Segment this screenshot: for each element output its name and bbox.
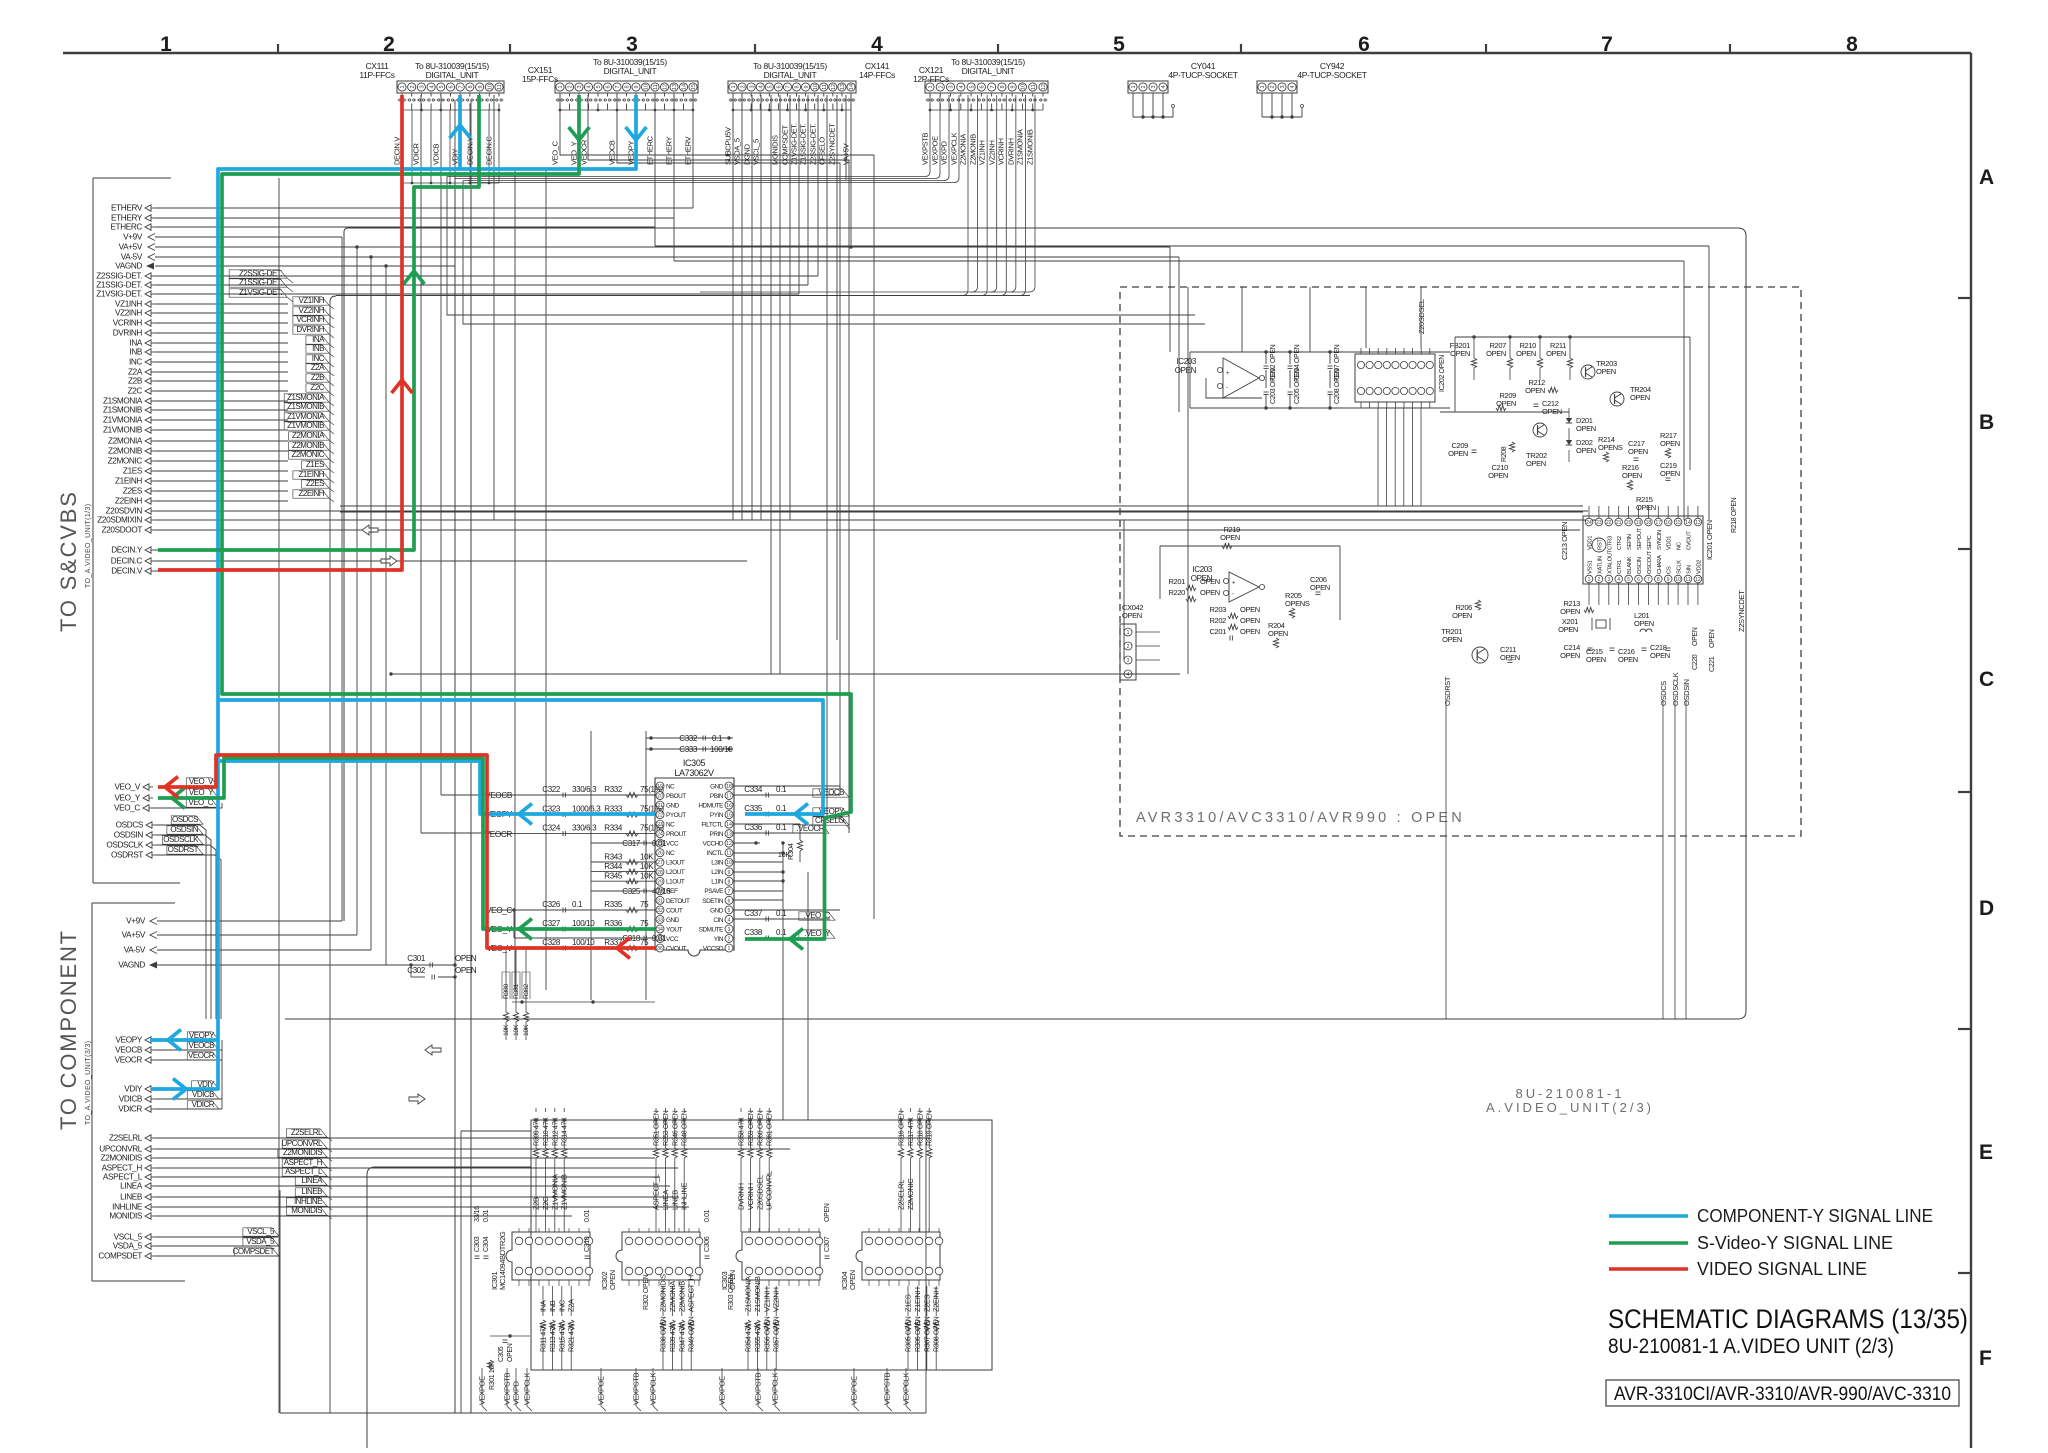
svg-text:VZ1INH: VZ1INH <box>762 1287 771 1312</box>
svg-text:4: 4 <box>959 85 965 88</box>
svg-text:Z2MONIB: Z2MONIB <box>677 1281 686 1312</box>
svg-text:R338 OPEN: R338 OPEN <box>661 1316 668 1352</box>
svg-text:3: 3 <box>420 85 426 88</box>
svg-text:C307: C307 <box>824 1236 831 1252</box>
svg-text:Z2ES: Z2ES <box>123 487 143 496</box>
svg-text:ETHERV: ETHERV <box>111 204 143 213</box>
svg-text:C208 OPEN: C208 OPEN <box>1334 368 1341 404</box>
svg-text:R347 47K: R347 47K <box>679 1323 686 1352</box>
svg-text:R355 47K: R355 47K <box>755 1323 762 1352</box>
svg-text:C303: C303 <box>474 1236 481 1252</box>
svg-text:VCC: VCC <box>666 936 679 943</box>
svg-text:2: 2 <box>1141 85 1147 88</box>
svg-text:VEO_C: VEO_C <box>551 140 560 165</box>
svg-text:OSDCS: OSDCS <box>1659 681 1668 706</box>
svg-text:Z1SMONIA: Z1SMONIA <box>287 393 325 402</box>
svg-text:10K: 10K <box>640 872 654 881</box>
svg-text:0.1: 0.1 <box>776 804 787 813</box>
svg-text:LINEB: LINEB <box>670 1190 679 1210</box>
svg-text:R381: R381 <box>513 984 520 999</box>
svg-text:OSDCS: OSDCS <box>172 815 198 824</box>
svg-text:D: D <box>1979 897 1994 920</box>
svg-text:OPEN: OPEN <box>1542 407 1562 416</box>
svg-text:OPEN: OPEN <box>1576 446 1596 455</box>
svg-text:330/6.3: 330/6.3 <box>572 785 597 794</box>
svg-text:2: 2 <box>1127 644 1130 650</box>
svg-text:INA: INA <box>312 335 325 344</box>
svg-text:6: 6 <box>980 85 986 88</box>
svg-text:C333: C333 <box>679 745 698 754</box>
svg-text:14P-FFCs: 14P-FFCs <box>859 70 895 80</box>
svg-text:1: 1 <box>1260 85 1266 88</box>
svg-text:C201: C201 <box>1209 627 1226 636</box>
svg-text:VSDA_5: VSDA_5 <box>113 1242 143 1251</box>
svg-text:11: 11 <box>653 84 659 90</box>
svg-text:15: 15 <box>726 813 732 819</box>
svg-text:Z1ES: Z1ES <box>306 460 324 469</box>
svg-text:2: 2 <box>1270 85 1276 88</box>
svg-text:C332: C332 <box>679 734 698 743</box>
svg-text:Z1SMONIB: Z1SMONIB <box>103 406 143 415</box>
svg-text:C325: C325 <box>622 887 641 896</box>
svg-text:3: 3 <box>728 927 731 933</box>
svg-text:2: 2 <box>938 85 944 88</box>
svg-text:7: 7 <box>990 85 996 88</box>
svg-text:OPEN: OPEN <box>1448 449 1468 458</box>
svg-text:R319 OPEN: R319 OPEN <box>927 1110 934 1146</box>
svg-text:1: 1 <box>728 946 731 952</box>
svg-text:GND: GND <box>666 802 680 809</box>
svg-text:Z1VMONIA: Z1VMONIA <box>287 412 325 421</box>
svg-text:20: 20 <box>1626 520 1632 526</box>
svg-text:VEXPCLK: VEXPCLK <box>950 133 959 165</box>
svg-text:R349 OPEN: R349 OPEN <box>689 1316 696 1352</box>
svg-text:0.1: 0.1 <box>712 734 723 743</box>
svg-text:Z2SELRL: Z2SELRL <box>109 1134 143 1143</box>
svg-text:C338: C338 <box>744 928 763 937</box>
svg-text:R335: R335 <box>604 900 623 909</box>
svg-text:28: 28 <box>657 870 663 876</box>
svg-text:Z2MONIA: Z2MONIA <box>668 1281 677 1312</box>
svg-text:17: 17 <box>1656 520 1662 526</box>
svg-text:11: 11 <box>726 851 731 857</box>
svg-text:OSDSCLK: OSDSCLK <box>106 841 144 850</box>
svg-text:R220: R220 <box>1168 588 1185 597</box>
svg-text:PSAVE: PSAVE <box>704 888 723 895</box>
svg-text:ETHERC: ETHERC <box>110 223 142 232</box>
svg-text:VEOCB: VEOCB <box>485 791 513 800</box>
svg-text:9: 9 <box>804 85 810 88</box>
svg-text:31: 31 <box>657 898 663 904</box>
svg-text:VIDEO SIGNAL LINE: VIDEO SIGNAL LINE <box>1697 1259 1867 1279</box>
svg-text:4: 4 <box>1617 577 1620 583</box>
svg-text:R315 47K: R315 47K <box>559 1323 566 1352</box>
svg-text:FILTCTL: FILTCTL <box>701 822 723 829</box>
svg-text:Z20SDSEL: Z20SDSEL <box>1417 299 1426 334</box>
svg-text:C301: C301 <box>407 954 426 963</box>
svg-text:Z2ES: Z2ES <box>922 1294 931 1312</box>
svg-text:8: 8 <box>1000 85 1006 88</box>
svg-text:OPEN: OPEN <box>1560 607 1580 616</box>
svg-text:16: 16 <box>1665 520 1671 526</box>
svg-text:PYIN: PYIN <box>710 812 724 819</box>
svg-text:16: 16 <box>726 803 732 809</box>
svg-text:OPEN: OPEN <box>1525 386 1545 395</box>
svg-text:1: 1 <box>1127 630 1130 636</box>
svg-text:OPEN: OPEN <box>1576 424 1596 433</box>
svg-text:MONIDIS: MONIDIS <box>291 1206 322 1215</box>
svg-text:Z1EINH: Z1EINH <box>299 470 325 479</box>
svg-text:LINEA: LINEA <box>661 1190 670 1210</box>
svg-text:VDICB: VDICB <box>119 1095 143 1104</box>
svg-text:OSDRST: OSDRST <box>168 845 199 854</box>
svg-text:Z1SSIG-DET.: Z1SSIG-DET. <box>799 123 808 165</box>
svg-text:XTALOUT: XTALOUT <box>1607 549 1613 574</box>
svg-text:INC: INC <box>129 358 142 367</box>
svg-text:IC203: IC203 <box>1192 565 1212 574</box>
svg-text:Z20SDSEL: Z20SDSEL <box>755 1175 764 1210</box>
svg-text:R360 OPEN: R360 OPEN <box>757 1110 764 1146</box>
svg-text:INA: INA <box>129 339 142 348</box>
svg-text:R382: R382 <box>523 984 530 999</box>
svg-text:11P-FFCs: 11P-FFCs <box>359 70 394 80</box>
svg-text:OPEN: OPEN <box>507 1343 514 1362</box>
svg-text:3: 3 <box>1607 577 1610 583</box>
svg-text:VCRINH: VCRINH <box>113 319 143 328</box>
svg-text:Z2MONIDIS: Z2MONIDIS <box>659 1274 668 1312</box>
svg-text:VA-5V: VA-5V <box>124 946 146 955</box>
svg-text:CTR1: CTR1 <box>1617 560 1623 574</box>
svg-text:PROUT: PROUT <box>666 831 687 838</box>
svg-text:11: 11 <box>1685 577 1690 583</box>
svg-text:OPEN: OPEN <box>1622 471 1642 480</box>
svg-text:Z1EINH: Z1EINH <box>913 1287 922 1312</box>
svg-text:OSDSIN: OSDSIN <box>1682 679 1691 706</box>
svg-text:BLANK: BLANK <box>1627 556 1633 574</box>
svg-text:C324: C324 <box>542 824 561 833</box>
svg-text:ASPECT_L: ASPECT_L <box>652 1174 661 1210</box>
svg-text:OPEN: OPEN <box>1546 349 1566 358</box>
svg-text:100/10: 100/10 <box>710 745 733 754</box>
svg-text:ETHERY: ETHERY <box>111 214 143 223</box>
svg-text:10: 10 <box>488 84 494 90</box>
svg-text:Z1EINH: Z1EINH <box>115 477 142 486</box>
svg-text:5: 5 <box>768 85 774 88</box>
svg-text:47/16: 47/16 <box>652 887 671 896</box>
svg-text:Z2MONIB: Z2MONIB <box>292 441 324 450</box>
svg-text:MONIDIS: MONIDIS <box>771 135 780 165</box>
svg-text:NC: NC <box>666 822 675 829</box>
svg-text:26: 26 <box>657 851 663 857</box>
svg-text:V+9V: V+9V <box>123 233 143 242</box>
svg-text:INA: INA <box>539 1300 548 1312</box>
svg-text:ETHERV: ETHERV <box>684 136 693 165</box>
svg-text:VSDA_5: VSDA_5 <box>733 138 742 165</box>
svg-text:Z2MONIA: Z2MONIA <box>959 134 968 165</box>
svg-text:14: 14 <box>682 84 688 90</box>
svg-text:OPEN: OPEN <box>1240 627 1260 636</box>
svg-text:VEOCB: VEOCB <box>188 1041 214 1050</box>
svg-text:C328: C328 <box>542 938 561 947</box>
svg-text:Z1VMONIB: Z1VMONIB <box>287 421 324 430</box>
svg-text:OPEN: OPEN <box>1200 577 1220 586</box>
svg-text:Z2MONIC: Z2MONIC <box>906 1178 915 1210</box>
svg-text:XATLIN: XATLIN <box>1597 556 1603 574</box>
svg-text:R339 47K: R339 47K <box>670 1323 677 1352</box>
svg-text:C322: C322 <box>542 785 561 794</box>
svg-text:OPEN: OPEN <box>1660 439 1680 448</box>
svg-text:VCCHD: VCCHD <box>703 841 724 848</box>
svg-text:7: 7 <box>615 85 621 88</box>
svg-text:OPEN: OPEN <box>848 1270 857 1290</box>
svg-text:L2IN: L2IN <box>711 869 724 876</box>
svg-text:Z1ES: Z1ES <box>904 1294 913 1312</box>
svg-text:VZ2INH: VZ2INH <box>115 309 142 318</box>
svg-text:OPEN: OPEN <box>1220 533 1240 542</box>
svg-text:Z2C: Z2C <box>128 387 143 396</box>
svg-text:OPEN: OPEN <box>1516 349 1536 358</box>
svg-text:24: 24 <box>1586 520 1592 526</box>
svg-text:1: 1 <box>731 85 737 88</box>
svg-text:TO S&CVBS: TO S&CVBS <box>56 490 81 632</box>
svg-text:R332: R332 <box>604 785 623 794</box>
svg-text:GND: GND <box>666 917 680 924</box>
svg-text:VEXPOE: VEXPOE <box>931 136 940 165</box>
svg-text:VSDA_5: VSDA_5 <box>246 1237 275 1246</box>
svg-text:27: 27 <box>657 860 663 866</box>
svg-text:VAGND: VAGND <box>118 961 145 970</box>
svg-text:2: 2 <box>740 85 746 88</box>
svg-text:8: 8 <box>728 879 731 885</box>
svg-text:VA+5V: VA+5V <box>122 931 146 940</box>
svg-text:OSDCS: OSDCS <box>116 821 144 830</box>
svg-text:3: 3 <box>626 33 638 56</box>
svg-text:33/16: 33/16 <box>474 1206 481 1222</box>
svg-text:6: 6 <box>728 898 731 904</box>
svg-text:VDIY: VDIY <box>124 1085 143 1094</box>
svg-text:4P-TUCP-SOCKET: 4P-TUCP-SOCKET <box>1168 70 1237 80</box>
svg-text:DIGITAL_UNIT: DIGITAL_UNIT <box>764 70 817 80</box>
svg-text:2: 2 <box>383 33 395 56</box>
svg-text:Z1VMONIA: Z1VMONIA <box>103 416 143 425</box>
svg-text:Z1VMONIB: Z1VMONIB <box>560 1174 569 1210</box>
svg-text:.VEO_C: .VEO_C <box>804 911 831 920</box>
svg-text:OPEN: OPEN <box>455 954 477 963</box>
svg-text:ASPECT_H: ASPECT_H <box>284 1158 323 1167</box>
svg-text:13: 13 <box>672 84 678 90</box>
svg-text:0.01: 0.01 <box>483 1209 490 1222</box>
svg-text:DVRINH: DVRINH <box>113 329 143 338</box>
svg-text:R321 47K: R321 47K <box>569 1323 576 1352</box>
svg-text:IC203: IC203 <box>1176 357 1196 366</box>
svg-text:DIGITAL_UNIT: DIGITAL_UNIT <box>426 70 479 80</box>
svg-text:C317: C317 <box>622 839 641 848</box>
svg-text:19: 19 <box>1636 520 1642 526</box>
svg-text:9: 9 <box>1667 577 1670 583</box>
svg-text:R344: R344 <box>604 862 623 871</box>
svg-text:OPEN: OPEN <box>1634 619 1654 628</box>
svg-text:VZ2INH: VZ2INH <box>299 306 325 315</box>
svg-text:ASPECT_H: ASPECT_H <box>687 1275 696 1312</box>
svg-text:SEPIN: SEPIN <box>1627 534 1633 550</box>
svg-text:LINEA: LINEA <box>301 1176 323 1185</box>
svg-text:GND: GND <box>710 783 724 790</box>
svg-text:VSS1: VSS1 <box>1588 560 1594 574</box>
svg-text:VZ1INH: VZ1INH <box>299 296 325 305</box>
svg-text:INC: INC <box>557 1299 566 1312</box>
svg-text:R345: R345 <box>604 872 623 881</box>
svg-text:VZ2INH: VZ2INH <box>988 140 997 165</box>
svg-text:YIN: YIN <box>714 936 724 943</box>
svg-text:0.1: 0.1 <box>572 900 583 909</box>
svg-text:12: 12 <box>726 841 732 847</box>
svg-text:L1OUT: L1OUT <box>666 879 685 886</box>
svg-text:VCRINH: VCRINH <box>746 1183 755 1210</box>
svg-text:75(1%): 75(1%) <box>640 785 664 794</box>
svg-text:6: 6 <box>777 85 783 88</box>
svg-text:VSCL_5: VSCL_5 <box>247 1227 275 1236</box>
svg-text:Z1VMONIA: Z1VMONIA <box>550 1174 559 1210</box>
svg-text:Z2C: Z2C <box>541 1196 550 1210</box>
svg-text:Z2B: Z2B <box>128 377 143 386</box>
svg-text:OPEN: OPEN <box>1650 651 1670 660</box>
svg-text:OSDRST: OSDRST <box>1443 676 1452 706</box>
svg-text:Z20SDOOT: Z20SDOOT <box>102 526 143 535</box>
svg-text:R303 OPEN: R303 OPEN <box>728 1274 735 1310</box>
svg-text:OPEN: OPEN <box>1488 471 1508 480</box>
svg-text:Z2MONIB: Z2MONIB <box>108 447 143 456</box>
svg-text:OPEN: OPEN <box>824 1203 831 1222</box>
svg-text:0.1: 0.1 <box>776 928 787 937</box>
svg-text:12: 12 <box>831 84 837 90</box>
svg-text:Z2SYNCDET: Z2SYNCDET <box>828 123 837 165</box>
svg-text:Z1ES: Z1ES <box>123 467 143 476</box>
svg-text:12: 12 <box>1695 577 1701 583</box>
svg-text:R218 OPEN: R218 OPEN <box>1731 497 1738 533</box>
svg-text:5: 5 <box>728 908 731 914</box>
svg-text:LINEB: LINEB <box>301 1187 322 1196</box>
svg-text:Z2SSIG-DET.: Z2SSIG-DET. <box>96 272 142 281</box>
svg-text:17: 17 <box>726 794 732 800</box>
svg-text:DECIN.Y: DECIN.Y <box>111 546 143 555</box>
svg-text:PYOUT: PYOUT <box>666 812 686 819</box>
svg-text:ASPECT_L: ASPECT_L <box>103 1173 143 1182</box>
svg-text:R348 OPEN: R348 OPEN <box>682 1110 689 1146</box>
svg-text:INB: INB <box>548 1300 557 1312</box>
svg-text:10: 10 <box>813 84 819 90</box>
svg-text:32: 32 <box>657 908 663 914</box>
svg-text:L2OUT: L2OUT <box>666 869 685 876</box>
svg-text:OPEN: OPEN <box>1200 588 1220 597</box>
svg-text:R354 47K: R354 47K <box>746 1323 753 1352</box>
svg-text:SIN: SIN <box>1687 565 1693 574</box>
svg-text:OSDSCLK: OSDSCLK <box>1671 672 1680 706</box>
svg-text:SCLK: SCLK <box>1677 560 1683 574</box>
svg-text:22: 22 <box>1606 520 1612 526</box>
svg-text:B: B <box>1979 411 1994 434</box>
svg-text:.VEO_Y: .VEO_Y <box>804 929 831 938</box>
svg-text:UPCONVRL: UPCONVRL <box>765 1171 774 1210</box>
svg-text:R313 47K: R313 47K <box>550 1323 557 1352</box>
svg-text:INCTL: INCTL <box>707 850 724 857</box>
svg-text:CTR3: CTR3 <box>1607 536 1613 550</box>
svg-text:VDICB: VDICB <box>432 143 441 165</box>
svg-text:6: 6 <box>1358 33 1370 56</box>
svg-text:VDD2: VDD2 <box>1696 560 1702 574</box>
svg-text:V+9V: V+9V <box>126 917 146 926</box>
svg-text:OPEN: OPEN <box>608 1270 617 1290</box>
svg-text:DECIN.V: DECIN.V <box>111 567 143 576</box>
svg-text:33: 33 <box>657 917 663 923</box>
svg-text:8: 8 <box>1846 33 1858 56</box>
svg-text:OPEN: OPEN <box>1586 655 1606 664</box>
svg-text:DGND: DGND <box>743 143 752 165</box>
svg-text:CVOUT: CVOUT <box>666 945 687 952</box>
svg-text:ETHERC: ETHERC <box>646 135 655 165</box>
svg-text:Z20SDMIXIN: Z20SDMIXIN <box>97 516 142 525</box>
svg-text:Z1SMONIA: Z1SMONIA <box>1016 129 1025 165</box>
svg-text:OSDSIN: OSDSIN <box>114 831 144 840</box>
svg-text:0.01: 0.01 <box>652 934 667 943</box>
svg-text:R336: R336 <box>604 919 623 928</box>
svg-text:8U-210081-1: 8U-210081-1 <box>1516 1086 1625 1101</box>
svg-text:MONIDIS: MONIDIS <box>109 1212 142 1221</box>
svg-text:4: 4 <box>1127 672 1130 678</box>
svg-text:C327: C327 <box>542 919 561 928</box>
svg-text:18: 18 <box>1646 520 1652 526</box>
svg-text:11: 11 <box>822 84 828 90</box>
svg-text:1: 1 <box>160 33 172 56</box>
svg-text:F: F <box>1979 1347 1992 1370</box>
svg-text:2: 2 <box>1598 577 1601 583</box>
svg-text:10K: 10K <box>778 850 791 859</box>
svg-text:VAGND: VAGND <box>115 262 142 271</box>
svg-text:VCCSD: VCCSD <box>703 945 724 952</box>
svg-text:R203: R203 <box>1209 605 1226 614</box>
svg-text:Z2A: Z2A <box>567 1299 576 1312</box>
svg-text:VEO_V: VEO_V <box>114 783 140 792</box>
svg-text:VEO_V: VEO_V <box>189 777 214 786</box>
svg-text:4P-TUCP-SOCKET: 4P-TUCP-SOCKET <box>1297 70 1366 80</box>
svg-text:10: 10 <box>644 84 650 90</box>
svg-text:E: E <box>1979 1141 1993 1164</box>
svg-text:9: 9 <box>634 85 640 88</box>
svg-text:0.1: 0.1 <box>776 785 787 794</box>
svg-text:R202: R202 <box>1209 616 1226 625</box>
svg-text:14: 14 <box>849 84 855 90</box>
svg-text:C213 OPEN: C213 OPEN <box>1560 522 1569 560</box>
svg-text:OPEN: OPEN <box>1310 583 1330 592</box>
svg-text:SEPC: SEPC <box>1647 535 1653 550</box>
svg-text:OPEN: OPEN <box>1486 349 1506 358</box>
svg-text:Z2MONIB: Z2MONIB <box>969 134 978 165</box>
svg-text:ASPECT_H: ASPECT_H <box>102 1164 143 1173</box>
svg-text:NC: NC <box>666 850 675 857</box>
svg-text:13: 13 <box>1695 520 1701 526</box>
svg-text:LINEA: LINEA <box>120 1182 143 1191</box>
svg-text:OPEN: OPEN <box>1636 503 1656 512</box>
svg-text:VEO_C: VEO_C <box>486 906 512 915</box>
svg-text:Z1VSIG-DET.: Z1VSIG-DET. <box>790 123 799 165</box>
svg-text:10K: 10K <box>513 1024 520 1036</box>
svg-text:VCRINH: VCRINH <box>997 138 1006 165</box>
svg-text:VDICB: VDICB <box>192 1090 214 1099</box>
svg-text:VSCL_5: VSCL_5 <box>114 1233 143 1242</box>
svg-text:7: 7 <box>458 85 464 88</box>
svg-text:75: 75 <box>640 900 649 909</box>
svg-text:DECIN.C: DECIN.C <box>111 557 143 566</box>
svg-text:PRIN: PRIN <box>710 831 724 838</box>
